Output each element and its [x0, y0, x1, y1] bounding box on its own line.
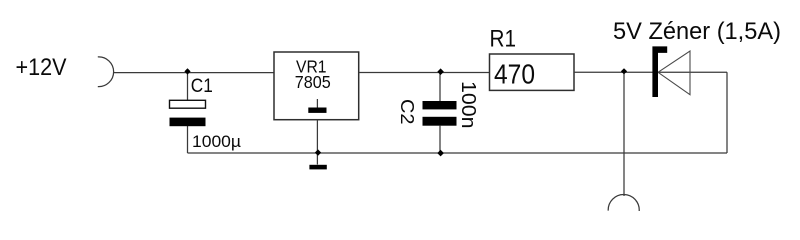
svg-text:5V Zéner (1,5A): 5V Zéner (1,5A): [613, 18, 781, 45]
svg-text:C2: C2: [397, 99, 417, 125]
svg-text:1000µ: 1000µ: [192, 132, 241, 151]
svg-text:C1: C1: [191, 76, 213, 97]
svg-text:470: 470: [494, 58, 535, 89]
svg-text:7805: 7805: [295, 72, 331, 92]
svg-text:100n: 100n: [457, 81, 479, 129]
svg-text:+12V: +12V: [16, 54, 67, 81]
svg-text:R1: R1: [490, 26, 517, 53]
